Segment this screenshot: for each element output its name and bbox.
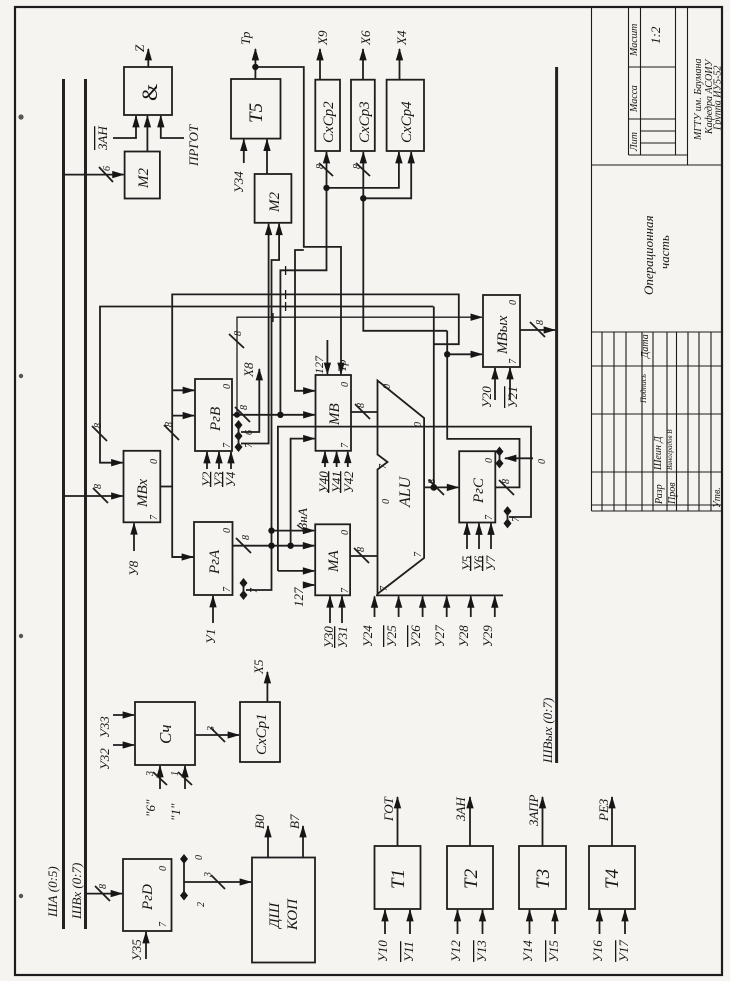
svg-text:ШВх (0:7): ШВх (0:7) bbox=[69, 863, 84, 920]
wire У32 bbox=[113, 744, 134, 746]
svg-text:У14: У14 bbox=[520, 940, 535, 962]
svg-text:У24: У24 bbox=[360, 625, 375, 647]
wire У33 bbox=[113, 714, 134, 716]
junction СхСр2/СхСр4 bbox=[323, 185, 329, 191]
trigger T2 bbox=[447, 846, 493, 909]
svg-text:&: & bbox=[137, 84, 162, 101]
slash 8 bbox=[95, 886, 110, 901]
svg-text:8: 8 bbox=[93, 484, 104, 489]
svg-text:МГТУ им. Баумана: МГТУ им. Баумана bbox=[693, 59, 704, 142]
svg-text:У26: У26 bbox=[408, 625, 423, 647]
wire Z output bbox=[147, 49, 149, 67]
svg-text:МВых: МВых bbox=[495, 315, 511, 355]
wire rail bbox=[172, 294, 459, 557]
wire X5 out bbox=[266, 672, 268, 702]
wire МА out to ALU bbox=[350, 555, 377, 557]
svg-text:Виноградов В: Виноградов В bbox=[666, 429, 674, 470]
svg-text:Сч: Сч bbox=[156, 725, 175, 744]
diamond tap РгС bit0 bbox=[496, 447, 504, 469]
svg-text:ALU: ALU bbox=[397, 475, 414, 508]
wire У10 bbox=[384, 910, 386, 934]
trigger T4 bbox=[589, 846, 635, 909]
wire РгА out to МА bbox=[233, 545, 315, 547]
wire У1 bbox=[212, 596, 214, 623]
wire ША to M2 bbox=[65, 174, 124, 176]
wire branch to СхСр4 in1 bbox=[327, 152, 399, 188]
svg-text:0: 0 bbox=[222, 528, 233, 533]
svg-text:0: 0 bbox=[484, 458, 495, 463]
svg-text:Операционная: Операционная bbox=[641, 215, 656, 295]
svg-text:У29: У29 bbox=[480, 625, 495, 647]
svg-text:В0: В0 bbox=[252, 814, 267, 829]
svg-text:7: 7 bbox=[222, 442, 233, 448]
slash 8 bbox=[356, 163, 370, 176]
svg-text:У8: У8 bbox=[126, 560, 141, 576]
wire M2 out to T5 bbox=[266, 140, 268, 174]
mux МВх bbox=[124, 451, 161, 523]
svg-text:8: 8 bbox=[164, 422, 175, 427]
svg-text:РЕЗ: РЕЗ bbox=[596, 798, 611, 822]
wire У25 bbox=[398, 596, 400, 617]
svg-text:8: 8 bbox=[501, 479, 512, 484]
register РгВ bbox=[195, 379, 232, 451]
svg-text:Х5: Х5 bbox=[251, 659, 266, 675]
wire У35 bbox=[145, 932, 147, 959]
ALU control collector bbox=[376, 594, 503, 596]
svg-text:Х9: Х9 bbox=[315, 30, 330, 46]
wire У17 bbox=[624, 910, 626, 934]
svg-text:8: 8 bbox=[98, 884, 109, 889]
wire У31 bbox=[341, 596, 343, 623]
wire MB in1 bbox=[295, 250, 315, 391]
svg-text:Т5: Т5 bbox=[246, 103, 267, 123]
svg-text:ЗАПР: ЗАПР bbox=[526, 795, 541, 826]
svg-text:СхСр3: СхСр3 bbox=[357, 101, 373, 143]
diamond tap РгА bit7 bbox=[240, 578, 248, 600]
junction РгВ-out/wavy bbox=[234, 412, 240, 418]
svg-text:У12: У12 bbox=[448, 940, 463, 962]
svg-text:У20: У20 bbox=[479, 386, 494, 408]
slash 8 bbox=[235, 407, 250, 422]
wire ЗАН bbox=[469, 797, 471, 846]
junction ALU out bbox=[430, 484, 437, 491]
wire rail drop РгА bbox=[172, 556, 193, 558]
slash 8 bbox=[92, 426, 107, 441]
svg-text:У28: У28 bbox=[456, 625, 471, 647]
bus ШВых(0:7) bbox=[555, 67, 558, 763]
wire ШВх to РгD bbox=[87, 893, 123, 895]
svg-text:ША (0:5): ША (0:5) bbox=[45, 866, 60, 918]
junction РгА-out/ЗнА bbox=[268, 543, 274, 549]
and gate U-AND bbox=[124, 67, 172, 115]
svg-text:8: 8 bbox=[356, 547, 367, 552]
slash 8 bbox=[229, 334, 244, 348]
register РгС bbox=[459, 451, 495, 522]
slash 3 bbox=[211, 728, 225, 742]
svg-text:0: 0 bbox=[340, 530, 351, 535]
bus ШВх(0:7) bbox=[84, 79, 87, 929]
wire B7 bbox=[302, 826, 304, 858]
wire У21 bbox=[509, 368, 511, 400]
svg-text:РгА: РгА bbox=[207, 549, 223, 575]
svg-text:7: 7 bbox=[508, 358, 519, 364]
wire Tp feedback bbox=[255, 67, 341, 374]
wire СхСр3 feed bbox=[363, 152, 447, 331]
op ALU trapezoid bbox=[378, 381, 425, 594]
slash 8 bbox=[93, 488, 108, 503]
svg-text:Группа ИУ5-52: Группа ИУ5-52 bbox=[713, 66, 724, 132]
mux МА bbox=[315, 524, 350, 595]
svg-text:У1: У1 bbox=[203, 629, 218, 644]
svg-text:8: 8 bbox=[315, 164, 326, 169]
wire РгD taps to ДШ КОП bbox=[184, 881, 251, 883]
wire X4 out bbox=[399, 49, 401, 80]
svg-text:У13: У13 bbox=[474, 940, 489, 962]
wire МВх out to rail bbox=[160, 486, 172, 488]
svg-text:Пров: Пров bbox=[667, 482, 678, 505]
wire РгС out bbox=[447, 331, 519, 488]
svg-text:7: 7 bbox=[249, 587, 260, 593]
margin marks bbox=[18, 114, 23, 898]
svg-text:Т1: Т1 bbox=[388, 869, 409, 889]
svg-text:У15: У15 bbox=[546, 940, 561, 962]
svg-text:Х8: Х8 bbox=[241, 362, 256, 378]
junction ЗнА/МА1 bbox=[268, 527, 274, 533]
svg-text:Т2: Т2 bbox=[461, 868, 482, 889]
svg-text:РгВ: РгВ bbox=[208, 407, 224, 432]
wire У34 to T5 bbox=[243, 140, 245, 163]
svg-text:М2: М2 bbox=[267, 192, 283, 213]
wire ЗАН input bbox=[113, 116, 136, 138]
wire ЗнА net bbox=[246, 224, 279, 590]
wire ЗнА to МА in1 bbox=[272, 530, 315, 532]
wire const 0 into bit0 bbox=[505, 457, 533, 459]
svg-text:Т3: Т3 bbox=[533, 869, 554, 889]
trigger T5 bbox=[231, 79, 281, 139]
wire У20 bbox=[494, 368, 496, 400]
wire РгС bit7 net bbox=[278, 427, 531, 571]
svg-text:Масшт: Масшт bbox=[629, 24, 640, 57]
counter Сч bbox=[135, 702, 195, 765]
svg-text:127: 127 bbox=[312, 355, 326, 374]
svg-text:0: 0 bbox=[194, 855, 205, 860]
wire У26 bbox=[422, 596, 424, 617]
slash 8 bbox=[429, 480, 444, 495]
wire У28 bbox=[470, 596, 472, 617]
svg-text:СхСр2: СхСр2 bbox=[321, 101, 337, 143]
svg-text:Шеин Д: Шеин Д bbox=[653, 436, 664, 471]
wire У12 bbox=[457, 910, 459, 934]
slash 8 bbox=[530, 322, 545, 337]
svg-text:Тр: Тр bbox=[335, 360, 349, 372]
svg-text:127: 127 bbox=[291, 587, 306, 607]
svg-text:ЗАН: ЗАН bbox=[95, 126, 110, 150]
crossing ticks bbox=[273, 266, 286, 322]
svg-text:ПРГОТ: ПРГОТ bbox=[186, 124, 201, 167]
svg-text:3: 3 bbox=[145, 771, 156, 777]
svg-text:7: 7 bbox=[379, 585, 390, 591]
svg-text:ШВых (0:7): ШВых (0:7) bbox=[540, 698, 555, 764]
svg-text:У11: У11 bbox=[401, 941, 416, 962]
wire const 1 bbox=[184, 766, 186, 789]
svg-text:0: 0 bbox=[158, 866, 169, 871]
slash 1 bbox=[178, 772, 192, 785]
wire X8 from bit6 bbox=[241, 369, 259, 432]
svg-text:8: 8 bbox=[427, 479, 438, 484]
wire У42 bbox=[347, 452, 349, 467]
wire 127 to МВ bbox=[326, 340, 328, 374]
svg-text:Масса: Масса bbox=[629, 85, 640, 113]
svg-text:7: 7 bbox=[222, 586, 233, 592]
svg-text:У17: У17 bbox=[616, 940, 631, 962]
svg-text:6: 6 bbox=[102, 166, 113, 171]
svg-text:2: 2 bbox=[196, 902, 207, 907]
wire У30 bbox=[329, 596, 331, 623]
svg-text:У25: У25 bbox=[384, 625, 399, 647]
svg-text:У33: У33 bbox=[97, 716, 112, 738]
slash 8 bbox=[355, 404, 370, 419]
wire СхСр2 feed from РгВ-out bbox=[280, 152, 326, 415]
junction РгВ-out/СхСр2 bbox=[277, 412, 283, 418]
svg-text:У42: У42 bbox=[341, 471, 356, 493]
wire У2 bbox=[206, 452, 208, 469]
title block bbox=[592, 7, 723, 511]
svg-text:Т4: Т4 bbox=[602, 868, 623, 889]
svg-text:В7: В7 bbox=[287, 814, 302, 829]
diamond tap РгС bit7 bbox=[504, 506, 512, 528]
svg-text:0: 0 bbox=[381, 499, 392, 504]
svg-text:У31: У31 bbox=[335, 626, 350, 648]
wire У5 bbox=[466, 524, 468, 550]
svg-text:Дата: Дата bbox=[640, 334, 651, 359]
slash 6 bbox=[99, 167, 113, 182]
wire rail drop РгВ-1 bbox=[172, 415, 194, 417]
wire РгВ to МВых (wavy) bbox=[237, 317, 482, 415]
wire У13 bbox=[482, 910, 484, 934]
svg-text:СхСр4: СхСр4 bbox=[399, 101, 415, 143]
slash 8 bbox=[319, 163, 333, 176]
svg-text:1:2: 1:2 bbox=[648, 26, 663, 44]
svg-text:8: 8 bbox=[239, 405, 250, 410]
wire ЗАПР bbox=[542, 797, 544, 846]
svg-text:"1": "1" bbox=[168, 803, 183, 821]
svg-text:7: 7 bbox=[158, 921, 169, 927]
svg-text:Утв.: Утв. bbox=[712, 487, 723, 508]
svg-text:У10: У10 bbox=[375, 940, 390, 962]
svg-text:Разр: Разр bbox=[654, 484, 665, 505]
wire У16 bbox=[599, 910, 601, 934]
wire 127 to МА in4 bbox=[306, 584, 314, 586]
wire У14 bbox=[529, 910, 531, 934]
svg-text:6: 6 bbox=[244, 430, 255, 435]
wire ALU out to РгС bbox=[424, 486, 458, 488]
register РгD bbox=[123, 859, 172, 931]
svg-text:ДШ: ДШ bbox=[267, 901, 283, 930]
svg-text:ЗнА: ЗнА bbox=[295, 508, 310, 529]
svg-text:М2: М2 bbox=[136, 168, 152, 189]
wire РгА out branch to МВ in3 bbox=[291, 439, 315, 546]
svg-text:РгС: РгС bbox=[471, 477, 487, 504]
mux M2 (second) bbox=[255, 174, 292, 223]
wire bit7 to M2 in1 bbox=[241, 224, 269, 444]
decoder ДШ КОП bbox=[252, 858, 315, 963]
svg-text:7: 7 bbox=[340, 587, 351, 593]
svg-text:СхСр1: СхСр1 bbox=[254, 713, 270, 755]
svg-text:ЗАН: ЗАН bbox=[453, 797, 468, 821]
mux M2 (top) bbox=[125, 152, 160, 199]
register РгА bbox=[194, 522, 233, 595]
svg-text:Тр: Тр bbox=[238, 31, 253, 45]
register СхСр2 bbox=[315, 80, 340, 151]
svg-text:МА: МА bbox=[326, 550, 342, 573]
svg-text:0: 0 bbox=[537, 459, 548, 464]
svg-text:8: 8 bbox=[93, 423, 104, 428]
slash 8 bbox=[236, 538, 251, 553]
svg-text:РгD: РгD bbox=[140, 884, 156, 911]
svg-text:У27: У27 bbox=[432, 625, 447, 647]
slash 3 bbox=[211, 875, 225, 889]
register СхСр1 bbox=[240, 702, 280, 762]
svg-text:7: 7 bbox=[378, 463, 389, 469]
slash 3 bbox=[153, 772, 167, 785]
slash 8 bbox=[354, 548, 369, 563]
svg-text:МВ: МВ bbox=[327, 403, 343, 426]
wire branch to СхСр4 in2 bbox=[363, 152, 411, 198]
svg-text:Подпись: Подпись bbox=[639, 374, 648, 404]
wire РгС bit7 to МА in3 bbox=[278, 570, 314, 572]
junction РгА-out/МВ3 bbox=[287, 543, 293, 549]
svg-text:У7: У7 bbox=[483, 555, 498, 571]
svg-text:7: 7 bbox=[484, 514, 495, 520]
svg-text:7: 7 bbox=[244, 442, 255, 448]
wire У15 bbox=[554, 910, 556, 934]
svg-text:Лит: Лит bbox=[629, 132, 640, 152]
wire МВ out to ALU bbox=[351, 411, 377, 413]
svg-text:1: 1 bbox=[170, 771, 181, 776]
svg-text:У4: У4 bbox=[223, 471, 238, 487]
diamond taps РгD bits 0,2 bbox=[180, 854, 188, 901]
svg-text:0: 0 bbox=[149, 459, 160, 464]
wire ПРГОТ input bbox=[161, 116, 184, 138]
svg-text:0: 0 bbox=[222, 384, 233, 389]
svg-text:8: 8 bbox=[241, 535, 252, 540]
svg-text:7: 7 bbox=[340, 442, 351, 448]
svg-text:У16: У16 bbox=[590, 940, 605, 962]
wire X6 out bbox=[362, 49, 364, 80]
svg-text:8: 8 bbox=[535, 320, 546, 325]
svg-text:У32: У32 bbox=[97, 748, 112, 770]
svg-text:7: 7 bbox=[413, 551, 424, 557]
mux МВ bbox=[316, 375, 352, 451]
svg-text:У34: У34 bbox=[231, 171, 246, 193]
wire ША to МВх bbox=[65, 495, 123, 497]
svg-text:Х4: Х4 bbox=[394, 30, 409, 46]
svg-text:8: 8 bbox=[356, 403, 367, 408]
svg-text:8: 8 bbox=[233, 331, 244, 336]
wire РгВ out to МВ in2 bbox=[232, 414, 315, 416]
svg-text:У30: У30 bbox=[321, 626, 336, 648]
svg-text:МВх: МВх bbox=[135, 479, 151, 508]
svg-text:7: 7 bbox=[511, 516, 522, 522]
bus ША(0:5) bbox=[62, 79, 65, 929]
wire У24 bbox=[374, 596, 376, 617]
svg-text:Х6: Х6 bbox=[358, 30, 373, 46]
slash 8 on rail bbox=[164, 425, 179, 440]
svg-text:КОП: КОП bbox=[285, 898, 301, 931]
wire T5 out Tp bbox=[254, 49, 256, 79]
wire ALU feedback bbox=[433, 307, 435, 488]
diamond taps РгВ bits 6,7 bbox=[235, 420, 243, 452]
wire У8 bbox=[133, 523, 135, 551]
svg-text:Z: Z bbox=[132, 44, 147, 52]
svg-text:часть: часть bbox=[657, 235, 672, 269]
wire У41 bbox=[336, 452, 338, 467]
wire B0 bbox=[267, 826, 269, 858]
wire M2 to AND bbox=[146, 116, 148, 151]
register СхСр4 bbox=[387, 80, 424, 151]
wire Сч to СхСр1 bbox=[195, 734, 239, 736]
wire МВых out to ШВых bbox=[520, 329, 555, 331]
register СхСр3 bbox=[351, 80, 375, 151]
wire У40 bbox=[324, 452, 326, 467]
svg-text:У21: У21 bbox=[505, 386, 520, 408]
mux МВых bbox=[483, 295, 520, 367]
wire РЕЗ bbox=[611, 797, 613, 846]
wire У27 bbox=[446, 596, 448, 617]
wire ГОТ bbox=[397, 797, 399, 846]
svg-text:8: 8 bbox=[352, 164, 363, 169]
wire РгС out to МВых in2 bbox=[447, 353, 482, 355]
slash 8 bbox=[499, 480, 514, 495]
junction СхСр3/СхСр4 bbox=[360, 195, 366, 201]
wire У29 bbox=[494, 596, 496, 617]
svg-text:7: 7 bbox=[149, 514, 160, 520]
wire У3 bbox=[218, 452, 220, 469]
svg-text:У35: У35 bbox=[129, 939, 144, 961]
junction РгС out / МВых bbox=[444, 351, 450, 357]
wire feedback to МВх in1 bbox=[100, 307, 433, 463]
svg-text:0: 0 bbox=[382, 384, 393, 389]
wire У6 bbox=[478, 524, 480, 550]
svg-text:"6": "6" bbox=[143, 799, 158, 817]
junction Tp bbox=[252, 64, 258, 70]
trigger T1 bbox=[375, 846, 421, 909]
svg-text:ГОТ: ГОТ bbox=[381, 796, 396, 822]
svg-text:0: 0 bbox=[508, 300, 519, 305]
wire У7 bbox=[490, 524, 492, 550]
wire У11 bbox=[409, 910, 411, 934]
wire rail drop РгВ-2 bbox=[172, 389, 194, 391]
wire X9 out bbox=[319, 49, 321, 80]
wire У4 bbox=[230, 452, 232, 469]
trigger T3 bbox=[519, 846, 566, 909]
wire const 6 bbox=[159, 766, 161, 789]
svg-text:0: 0 bbox=[340, 382, 351, 387]
